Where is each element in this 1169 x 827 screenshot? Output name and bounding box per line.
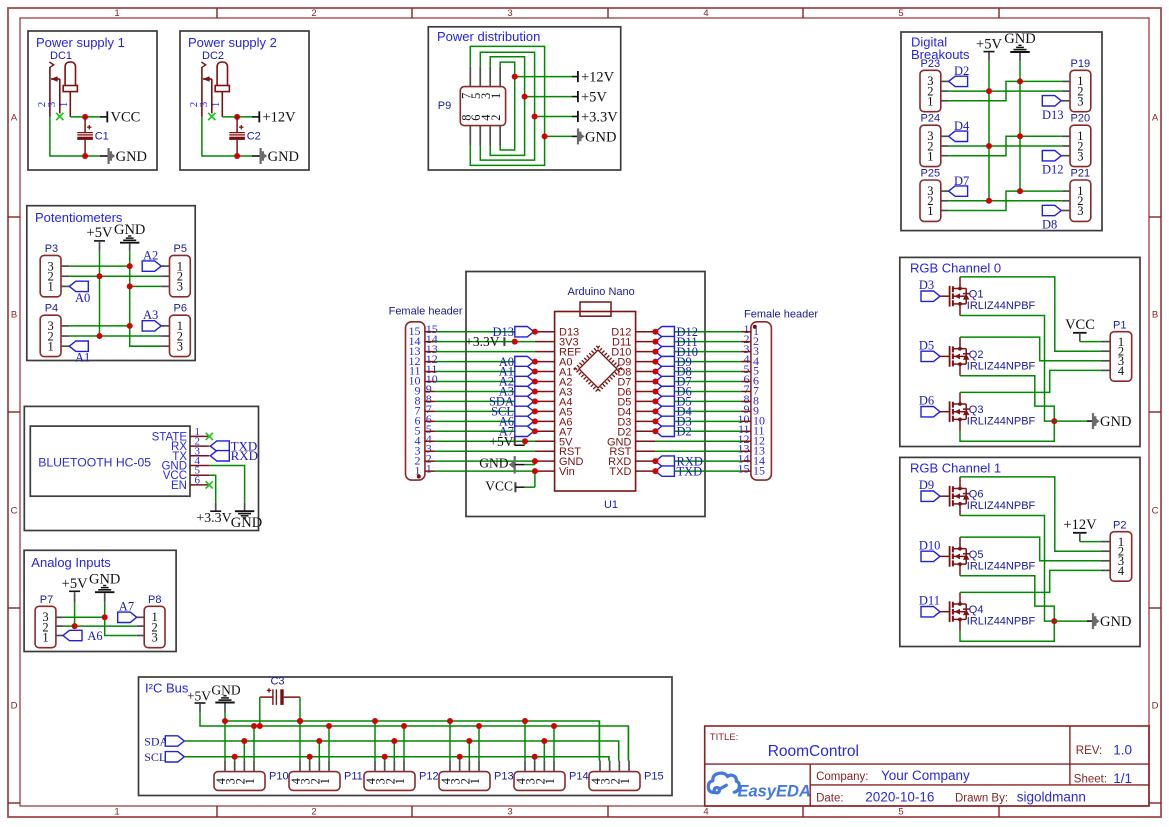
wire GND to pin3 <box>130 345 162 347</box>
net label A2 <box>142 248 161 271</box>
svg-text:+5V: +5V <box>489 434 513 449</box>
net label A1 <box>499 365 534 379</box>
junction <box>1017 188 1023 194</box>
svg-text:Female header: Female header <box>744 309 818 321</box>
transistor Q4 with net label D11 <box>919 592 1036 631</box>
wire +5V bus <box>200 712 628 761</box>
wire pin4 to GND bus <box>299 721 301 761</box>
junction <box>97 273 103 279</box>
svg-text:+5V: +5V <box>976 36 1002 52</box>
junction <box>82 153 88 159</box>
svg-text:3: 3 <box>1077 204 1083 218</box>
wire GND <box>209 466 244 503</box>
wire pin1 jog <box>949 136 1062 155</box>
connector P9 <box>438 67 506 146</box>
svg-text:GND: GND <box>1100 414 1131 430</box>
wire GND bus <box>225 713 599 761</box>
module U2 BLUETOOTH HC-05 <box>30 426 209 496</box>
junction <box>652 468 658 474</box>
net label D2 <box>949 64 970 86</box>
junction <box>72 623 78 629</box>
connector P4 <box>40 303 69 357</box>
wire GND vertical <box>1019 61 1021 191</box>
junction <box>652 339 658 345</box>
svg-text:A6: A6 <box>87 629 102 643</box>
junction <box>316 738 322 744</box>
power flag +5V <box>187 689 211 712</box>
wire +5V vertical <box>74 603 76 627</box>
ground <box>100 148 147 165</box>
no-connect flag pin 1 <box>206 433 213 440</box>
junction <box>551 723 557 729</box>
ground <box>211 682 240 712</box>
net label D11 <box>655 335 697 349</box>
junction <box>532 114 538 120</box>
wire pin1 to +5V bus <box>403 726 405 761</box>
svg-text:P13: P13 <box>494 771 514 783</box>
junction <box>447 718 453 724</box>
wire loop pin5-pin6 <box>480 52 534 160</box>
svg-text:P10: P10 <box>269 771 289 783</box>
net label SCL <box>491 405 534 419</box>
wire gnd rail <box>50 117 100 156</box>
svg-text:Q1: Q1 <box>969 289 984 301</box>
wire left row A5 <box>435 410 535 412</box>
junction <box>652 408 658 414</box>
junction <box>297 718 303 724</box>
wire pin1 to output <box>222 116 252 118</box>
svg-text:2: 2 <box>489 114 503 120</box>
wire right row D2 <box>655 430 741 432</box>
junction <box>326 723 332 729</box>
net label D7 <box>655 375 691 389</box>
wire pin2 to SDA <box>318 741 320 761</box>
junction <box>986 198 992 204</box>
wire left row A2 <box>435 381 535 383</box>
wire left row A6 <box>435 420 535 422</box>
title block <box>705 726 1149 806</box>
svg-text:RGB Channel 0: RGB Channel 0 <box>910 261 1001 276</box>
svg-text:RGB Channel 1: RGB Channel 1 <box>910 461 1001 476</box>
junction <box>652 349 658 355</box>
svg-text:D4: D4 <box>954 119 970 133</box>
svg-text:D6: D6 <box>919 394 934 408</box>
svg-text:P5: P5 <box>174 243 187 255</box>
junction <box>532 468 538 474</box>
connector P21 <box>1062 168 1091 222</box>
wire pin1 to +5V bus <box>478 726 480 761</box>
svg-text:Vin: Vin <box>559 466 575 478</box>
capacitor C2 <box>229 117 260 156</box>
svg-text:4: 4 <box>703 8 708 19</box>
svg-text:1: 1 <box>47 339 53 353</box>
svg-text:P19: P19 <box>1071 58 1091 70</box>
wire right row GND <box>655 440 741 442</box>
svg-text:VCC: VCC <box>111 110 141 126</box>
svg-text:A7: A7 <box>119 600 134 614</box>
wire loop pin7-pin8 <box>470 46 544 165</box>
net label A3 <box>142 308 161 331</box>
wire pin1 to output <box>70 116 100 118</box>
power flag +5V <box>976 36 1002 61</box>
svg-text:Arduino Nano: Arduino Nano <box>568 286 635 298</box>
connector P10 <box>214 761 289 791</box>
wire pin2 to SDA <box>243 741 245 761</box>
svg-text:sigoldmann: sigoldmann <box>1017 790 1086 805</box>
net label D10 <box>655 345 698 359</box>
wire right row D7 <box>655 381 741 383</box>
net label RXD <box>210 448 258 463</box>
svg-text:P9: P9 <box>438 100 451 112</box>
connector P23 <box>920 58 949 112</box>
svg-text:+5V: +5V <box>62 576 88 592</box>
net label SDA <box>489 395 534 409</box>
svg-text:C: C <box>1152 506 1159 517</box>
net label A2 <box>499 375 534 389</box>
svg-text:GND: GND <box>211 682 240 697</box>
ground <box>1054 613 1131 630</box>
svg-text:BLUETOOTH HC-05: BLUETOOTH HC-05 <box>38 456 151 470</box>
svg-text:DC2: DC2 <box>202 50 224 62</box>
junction <box>127 283 133 289</box>
junction <box>532 359 538 365</box>
wire left row A1 <box>435 371 535 373</box>
svg-text:P3: P3 <box>45 243 58 255</box>
wire Q4 drain to pin4 <box>960 570 1100 592</box>
wire VCC <box>209 475 215 503</box>
wire left row RST <box>435 450 535 452</box>
junction <box>391 738 397 744</box>
wire pin1 to +5V bus <box>328 726 330 761</box>
junction <box>986 88 992 94</box>
wire left row A4 <box>435 400 535 402</box>
svg-text:3: 3 <box>177 339 183 353</box>
svg-text:EN: EN <box>171 480 187 492</box>
svg-text:I²C Bus: I²C Bus <box>145 681 189 696</box>
wire GND vertical <box>105 603 137 636</box>
svg-text:2: 2 <box>311 8 316 19</box>
junction <box>532 329 538 335</box>
svg-text:1.0: 1.0 <box>1113 743 1132 758</box>
net label TXD <box>655 464 702 478</box>
svg-text:1: 1 <box>114 807 119 818</box>
wire Q4 source <box>960 621 1054 641</box>
junction <box>1051 618 1057 624</box>
svg-text:4: 4 <box>1118 364 1125 378</box>
svg-text:IRLIZ44NPBF: IRLIZ44NPBF <box>967 360 1036 372</box>
wire C3 to GND bus <box>299 697 301 721</box>
power flag +12V <box>515 70 615 86</box>
net label A0 <box>69 281 90 305</box>
junction <box>652 418 658 424</box>
junction <box>652 329 658 335</box>
wire Q5 drain to pin3 <box>960 537 1100 561</box>
net label D12 <box>655 325 698 339</box>
wire Q1 drain to pin2 <box>960 277 1100 351</box>
svg-text:1: 1 <box>58 102 70 108</box>
junction <box>532 398 538 404</box>
svg-text:Company:: Company: <box>816 771 868 783</box>
net label D4 <box>655 405 692 419</box>
net label D8 <box>655 365 691 379</box>
svg-text:A: A <box>11 113 18 124</box>
junction <box>251 723 257 729</box>
junction <box>532 458 538 464</box>
connector right female header <box>738 309 819 481</box>
wire C3 to +5V bus <box>259 697 261 726</box>
svg-text:A2: A2 <box>143 248 158 262</box>
connector P19 <box>1062 58 1091 112</box>
svg-text:D9: D9 <box>919 478 934 492</box>
svg-text:+3.3V: +3.3V <box>196 511 232 526</box>
svg-text:Power supply 2: Power supply 2 <box>188 35 277 50</box>
svg-text:A0: A0 <box>75 291 90 305</box>
connector P12 <box>364 761 439 791</box>
svg-text:15: 15 <box>738 462 750 476</box>
connector DC2 barrel jack <box>188 50 229 117</box>
junction <box>522 94 528 100</box>
net label A6 <box>63 629 103 643</box>
junction <box>532 369 538 375</box>
wire right row D9 <box>655 361 741 363</box>
wire pin2 to SDA <box>468 741 470 761</box>
wire pin2 rail <box>69 275 161 277</box>
svg-text:GND: GND <box>479 456 508 471</box>
svg-text:GND: GND <box>585 129 616 145</box>
wire right row TXD <box>655 470 741 472</box>
svg-text:+3.3V: +3.3V <box>581 109 618 125</box>
power flag +3.3V <box>465 334 504 349</box>
junction <box>1017 78 1023 84</box>
svg-text:P4: P4 <box>45 303 58 315</box>
svg-text:IRLIZ44NPBF: IRLIZ44NPBF <box>967 616 1036 628</box>
wire left row A0 <box>435 361 535 363</box>
svg-text:REV:: REV: <box>1076 745 1102 757</box>
junction <box>652 428 658 434</box>
wire left row GND <box>435 460 535 462</box>
svg-text:A: A <box>1152 113 1159 124</box>
junction <box>532 754 538 760</box>
connector P24 <box>920 113 949 167</box>
wire GND vertical <box>130 251 162 346</box>
svg-text:A1: A1 <box>75 351 90 365</box>
power flag +5V <box>87 225 113 251</box>
wire GND to pin3 <box>130 285 162 287</box>
svg-text:Q5: Q5 <box>969 549 984 561</box>
junction <box>382 754 388 760</box>
ground <box>1004 31 1035 61</box>
net label A1 <box>69 341 90 365</box>
net label D3 <box>655 415 691 429</box>
connector P25 <box>920 168 949 222</box>
svg-text:P15: P15 <box>644 771 664 783</box>
wire pin2 rail <box>69 335 161 337</box>
svg-text:Q2: Q2 <box>969 349 984 361</box>
no-connect flag pin 3 <box>56 113 63 120</box>
wire right row RXD <box>655 460 741 462</box>
svg-text:D8: D8 <box>1042 218 1057 232</box>
svg-text:P8: P8 <box>148 594 161 606</box>
wire pin3 to SCL <box>459 757 461 761</box>
wire SCL bus <box>184 757 609 761</box>
wire pin1 riser <box>627 726 629 761</box>
svg-text:Analog Inputs: Analog Inputs <box>31 555 111 570</box>
wire pin1 jog <box>949 191 1062 210</box>
connector P11 <box>289 761 363 791</box>
junction <box>532 408 538 414</box>
junction <box>234 114 240 120</box>
net label D12 <box>1042 151 1064 177</box>
wire left row Vin <box>435 470 535 472</box>
svg-text:1: 1 <box>318 778 332 784</box>
wire Q6 drain to pin2 <box>960 477 1100 551</box>
junction <box>297 718 303 724</box>
svg-text:1: 1 <box>426 462 432 476</box>
svg-text:1: 1 <box>543 778 557 784</box>
svg-text:U1: U1 <box>604 499 618 511</box>
svg-text:RoomControl: RoomControl <box>768 743 859 760</box>
junction <box>372 718 378 724</box>
power flag +3.3V <box>535 109 619 125</box>
svg-text:1: 1 <box>489 93 503 99</box>
svg-text:TXD: TXD <box>609 466 631 478</box>
net label D4 <box>949 119 970 141</box>
svg-text:3: 3 <box>507 807 512 818</box>
wire Q2 source <box>960 376 1054 421</box>
svg-text:TITLE:: TITLE: <box>710 732 739 743</box>
junction <box>82 114 88 120</box>
wire right row D12 <box>655 331 741 333</box>
svg-text:IRLIZ44NPBF: IRLIZ44NPBF <box>967 500 1036 512</box>
power flag +5V <box>489 434 524 449</box>
capacitor C1 <box>77 117 108 156</box>
svg-text:1: 1 <box>42 631 48 645</box>
junction <box>102 614 108 620</box>
EasyEDA logo <box>708 773 811 800</box>
svg-text:1: 1 <box>393 778 407 784</box>
net label A0 <box>499 355 534 369</box>
svg-text:5: 5 <box>898 8 903 19</box>
wire pin2 rail <box>63 625 137 627</box>
junction <box>512 74 518 80</box>
wire Q5 source <box>960 576 1054 621</box>
power flag +5V <box>62 576 88 603</box>
ground <box>252 148 299 165</box>
junction <box>97 333 103 339</box>
svg-text:Power supply 1: Power supply 1 <box>36 35 125 50</box>
svg-text:IRLIZ44NPBF: IRLIZ44NPBF <box>967 300 1036 312</box>
ground <box>545 128 617 145</box>
no-connect flag pin 3 <box>208 113 215 120</box>
connector P13 <box>439 761 514 791</box>
ground <box>89 572 120 603</box>
junction <box>532 388 538 394</box>
junction <box>457 754 463 760</box>
svg-text:+12V: +12V <box>1063 517 1097 533</box>
junction <box>532 379 538 385</box>
power flag +12V <box>1063 517 1100 542</box>
junction <box>127 263 133 269</box>
svg-text:1: 1 <box>47 280 53 294</box>
svg-text:VCC: VCC <box>485 478 513 493</box>
connector P5 <box>161 243 190 297</box>
svg-text:Potentiometers: Potentiometers <box>35 210 123 225</box>
wire pin4 to GND bus <box>374 721 376 761</box>
svg-text:TXD: TXD <box>677 464 703 478</box>
wire +5V vertical <box>988 61 990 202</box>
junction <box>1017 133 1023 139</box>
wire pin3 to GND <box>69 325 129 327</box>
connector P6 <box>161 303 190 357</box>
junction <box>522 718 528 724</box>
connector P20 <box>1062 113 1091 167</box>
wire pin3 riser <box>608 757 610 761</box>
svg-text:Q6: Q6 <box>969 489 984 501</box>
svg-text:1: 1 <box>927 149 933 163</box>
wire left row A7 <box>435 430 535 432</box>
wire pin4 to GND bus <box>449 721 451 761</box>
svg-text:D13: D13 <box>1042 108 1064 122</box>
junction <box>652 398 658 404</box>
junction <box>986 143 992 149</box>
wire pin3 to GND <box>63 616 105 618</box>
power flag +5V <box>525 90 608 106</box>
connector P8 <box>137 594 165 648</box>
wire pin2 rail <box>949 200 1062 202</box>
svg-text:+3.3V: +3.3V <box>465 334 499 349</box>
wire pin3 to SCL <box>234 757 236 761</box>
power flag VCC <box>1065 317 1100 342</box>
wire pin2 rail <box>949 145 1062 147</box>
svg-text:3: 3 <box>1077 95 1083 109</box>
svg-text:D11: D11 <box>919 594 940 608</box>
svg-text:1: 1 <box>243 778 257 784</box>
net label SCL <box>144 750 184 764</box>
svg-text:D2: D2 <box>954 64 969 78</box>
power flag VCC <box>485 471 535 493</box>
connector left female header <box>389 306 463 481</box>
transistor Q2 with net label D5 <box>919 337 1036 376</box>
net label A3 <box>499 385 534 399</box>
capacitor C3 <box>260 676 300 705</box>
junction <box>1051 418 1057 424</box>
ground <box>1054 413 1131 430</box>
junction <box>127 323 133 329</box>
wire pin2 to SDA <box>393 741 395 761</box>
svg-text:Power distribution: Power distribution <box>437 29 540 44</box>
junction <box>522 438 528 444</box>
svg-text:+5V: +5V <box>581 90 607 106</box>
svg-text:C: C <box>11 506 18 517</box>
svg-text:P11: P11 <box>344 771 363 783</box>
svg-text:D7: D7 <box>954 174 969 188</box>
svg-text:SCL: SCL <box>144 750 166 764</box>
wire pin1 to +5V bus <box>253 726 255 761</box>
svg-text:IRLIZ44NPBF: IRLIZ44NPBF <box>967 560 1036 572</box>
svg-text:C3: C3 <box>270 676 284 688</box>
junction <box>234 153 240 159</box>
wire pin1 jog <box>949 81 1062 100</box>
wire right row D10 <box>655 351 741 353</box>
junction <box>652 359 658 365</box>
svg-text:+5V: +5V <box>87 225 113 241</box>
svg-text:P1: P1 <box>1113 320 1126 332</box>
svg-text:Female header: Female header <box>389 306 463 318</box>
transistor Q3 with net label D6 <box>919 392 1036 431</box>
svg-text:P14: P14 <box>569 771 589 783</box>
junction <box>652 388 658 394</box>
junction <box>222 718 228 724</box>
